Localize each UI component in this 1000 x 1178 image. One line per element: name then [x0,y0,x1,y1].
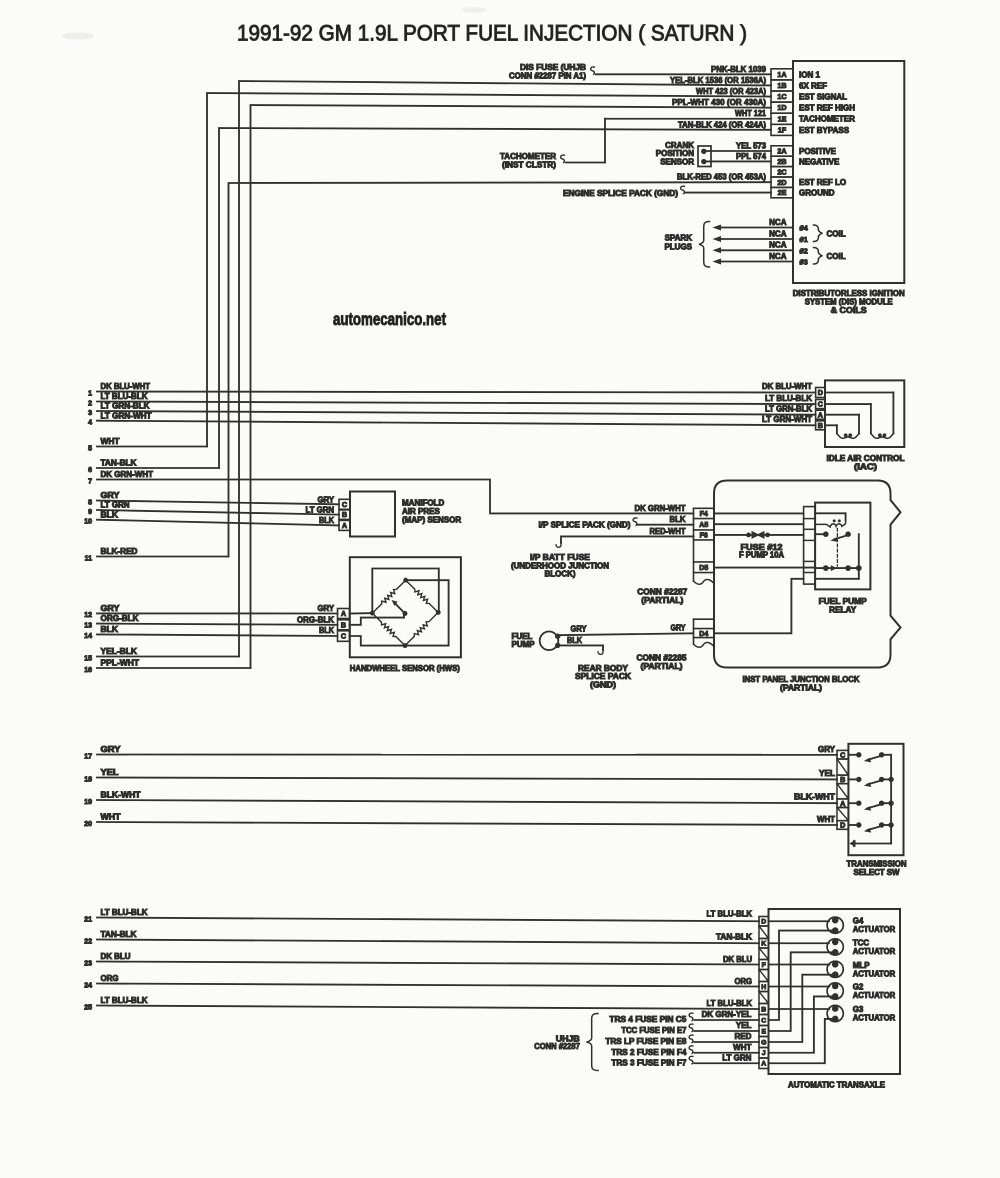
svg-text:24: 24 [84,982,92,989]
svg-text:25: 25 [84,1004,92,1011]
svg-text:YEL-BLK: YEL-BLK [101,647,138,656]
svg-text:5: 5 [88,445,92,452]
svg-text:BLK: BLK [567,636,582,645]
svg-text:B: B [818,421,823,430]
svg-text:WHT 121: WHT 121 [735,109,766,118]
svg-text:TAN-BLK 424 (OR 424A): TAN-BLK 424 (OR 424A) [678,120,766,129]
svg-text:C: C [342,500,347,509]
svg-text:BLK: BLK [319,626,334,635]
svg-text:F6: F6 [700,533,708,540]
svg-text:LT BLU-BLK: LT BLU-BLK [765,394,812,403]
svg-text:(INST CLSTR): (INST CLSTR) [502,160,556,169]
svg-text:PPL-WHT 430 (OR 430A): PPL-WHT 430 (OR 430A) [672,98,766,107]
svg-text:13: 13 [84,622,92,629]
svg-text:14: 14 [84,633,92,640]
svg-text:RELAY: RELAY [829,605,857,614]
svg-text:C: C [341,632,346,641]
svg-text:LT BLU-BLK: LT BLU-BLK [101,908,148,917]
svg-text:D: D [840,821,845,830]
svg-text:PPL-WHT: PPL-WHT [101,659,140,668]
svg-text:22: 22 [84,938,92,945]
svg-text:1: 1 [88,390,92,397]
svg-text:4: 4 [88,420,92,427]
svg-text:#4: #4 [800,224,809,233]
svg-text:GRY: GRY [571,625,588,634]
svg-text:BLOCK): BLOCK) [545,570,576,579]
svg-text:LT GRN: LT GRN [101,501,130,510]
svg-text:ORG: ORG [735,977,753,986]
svg-text:8: 8 [88,499,92,506]
svg-text:GRY: GRY [671,624,687,633]
svg-text:H: H [761,984,766,991]
svg-text:BLK: BLK [319,516,334,525]
svg-text:LT BLU-BLK: LT BLU-BLK [707,999,753,1008]
svg-text:7: 7 [88,478,92,485]
svg-text:C: C [818,400,823,409]
svg-text:GRY: GRY [101,491,121,500]
svg-text:2A: 2A [777,147,786,156]
svg-text:ACTUATOR: ACTUATOR [853,969,896,978]
svg-text:BLK: BLK [670,515,686,524]
svg-text:automecanico.net: automecanico.net [333,309,446,329]
svg-text:COIL: COIL [827,252,846,261]
svg-text:23: 23 [84,960,92,967]
svg-text:TRS 4 FUSE PIN C5: TRS 4 FUSE PIN C5 [609,1015,687,1024]
svg-text:A: A [818,410,823,419]
svg-text:F PUMP 10A: F PUMP 10A [739,550,784,559]
svg-text:NCA: NCA [769,252,787,261]
svg-text:9: 9 [88,509,92,516]
svg-text:ION 1: ION 1 [799,70,820,79]
svg-text:RED: RED [735,1032,752,1041]
svg-text:ACTUATOR: ACTUATOR [853,991,896,1000]
svg-text:COIL: COIL [827,230,846,239]
svg-text:#3: #3 [800,258,808,267]
svg-text:CONN #2287: CONN #2287 [534,1042,580,1051]
svg-text:BLK: BLK [101,510,119,519]
svg-text:1A: 1A [777,70,786,79]
svg-text:BLK-RED: BLK-RED [101,547,138,556]
svg-text:A: A [342,521,347,530]
svg-text:TRS LP FUSE PIN E8: TRS LP FUSE PIN E8 [605,1037,687,1046]
svg-text:RED-WHT: RED-WHT [650,527,686,536]
svg-text:TAN-BLK: TAN-BLK [101,459,137,468]
svg-text:(MAP) SENSOR: (MAP) SENSOR [402,515,461,524]
svg-text:1F: 1F [778,125,787,134]
svg-text:LT GRN-BLK: LT GRN-BLK [101,402,150,411]
svg-text:F4: F4 [700,511,708,518]
svg-text:LT BLU-BLK: LT BLU-BLK [707,910,753,919]
svg-text:WHT 423 (OR 423A): WHT 423 (OR 423A) [696,87,766,96]
svg-text:TAN-BLK: TAN-BLK [716,933,752,942]
svg-text:NEGATIVE: NEGATIVE [799,157,840,166]
svg-text:CONN #2287 PIN A1): CONN #2287 PIN A1) [509,71,586,80]
svg-text:DK GRN-YEL: DK GRN-YEL [702,1010,752,1019]
svg-text:#1: #1 [800,235,808,244]
svg-text:(PARTIAL): (PARTIAL) [780,684,822,693]
svg-text:12: 12 [84,612,92,619]
svg-text:16: 16 [84,667,92,674]
svg-text:POSITIVE: POSITIVE [799,147,837,156]
svg-text:E: E [761,1028,766,1035]
svg-text:LT GRN: LT GRN [722,1053,751,1062]
svg-text:BLK-WHT: BLK-WHT [101,791,141,800]
svg-text:ACTUATOR: ACTUATOR [853,1014,896,1023]
svg-text:LT GRN-WHT: LT GRN-WHT [101,411,152,420]
svg-text:LT GRN-BLK: LT GRN-BLK [765,405,812,414]
svg-text:#2: #2 [800,247,808,256]
svg-text:EST REF HIGH: EST REF HIGH [799,104,855,113]
svg-text:11: 11 [85,555,93,562]
svg-text:YEL: YEL [736,1021,752,1030]
svg-text:BLK: BLK [101,625,119,634]
svg-text:10: 10 [84,519,92,526]
svg-text:J: J [762,1050,766,1057]
svg-text:YEL: YEL [101,768,119,777]
svg-text:ACTUATOR: ACTUATOR [853,947,896,956]
svg-text:DK GRN-WHT: DK GRN-WHT [635,504,686,513]
svg-text:D4: D4 [699,631,708,638]
svg-text:WHT: WHT [733,1043,751,1052]
svg-text:BLK-WHT: BLK-WHT [794,793,835,802]
svg-text:LT BLU-BLK: LT BLU-BLK [101,996,148,1005]
svg-text:1E: 1E [778,114,787,123]
svg-text:6X REF: 6X REF [799,81,827,90]
svg-text:20: 20 [84,821,92,828]
svg-text:19: 19 [84,799,92,806]
svg-text:B: B [342,510,347,519]
svg-text:D: D [761,919,766,926]
svg-text:& COILS: & COILS [831,306,868,315]
svg-text:TACHOMETER: TACHOMETER [799,115,855,124]
svg-text:PUMP: PUMP [512,640,536,649]
svg-text:B: B [341,620,346,629]
svg-text:SPARK: SPARK [665,233,693,242]
svg-text:GRY: GRY [101,745,122,754]
svg-text:(GND): (GND) [590,680,616,689]
svg-text:TCC FUSE PIN E7: TCC FUSE PIN E7 [621,1026,687,1035]
svg-text:1D: 1D [777,103,786,112]
svg-text:LT BLU-BLK: LT BLU-BLK [101,392,148,401]
svg-text:WHT: WHT [817,815,835,824]
svg-text:D: D [818,388,823,397]
svg-text:YEL: YEL [819,769,835,778]
svg-text:G: G [761,1039,766,1046]
svg-text:LT GRN: LT GRN [306,505,335,514]
svg-text:ORG: ORG [101,974,119,983]
svg-text:ACTUATOR: ACTUATOR [853,925,896,934]
svg-text:PPL 574: PPL 574 [736,152,767,161]
svg-text:21: 21 [84,916,92,923]
svg-text:AUTOMATIC TRANSAXLE: AUTOMATIC TRANSAXLE [788,1081,886,1090]
svg-text:LT GRN-WHT: LT GRN-WHT [762,415,812,424]
svg-text:DK BLU: DK BLU [101,952,131,961]
svg-text:PNK-BLK 1039: PNK-BLK 1039 [711,65,767,74]
svg-text:ORG-BLK: ORG-BLK [297,615,334,624]
svg-text:I/P SPLICE PACK (GND): I/P SPLICE PACK (GND) [539,520,631,529]
svg-text:1C: 1C [777,92,786,101]
svg-text:GRY: GRY [318,495,335,504]
svg-text:(IAC): (IAC) [854,463,877,472]
svg-text:DK BLU-WHT: DK BLU-WHT [101,382,151,391]
svg-text:ORG-BLK: ORG-BLK [101,614,139,623]
svg-text:GRY: GRY [818,745,836,754]
svg-text:A: A [840,799,845,808]
svg-text:6: 6 [88,467,92,474]
svg-text:F: F [762,962,766,969]
svg-text:GRY: GRY [318,604,335,613]
svg-text:(PARTIAL): (PARTIAL) [641,596,683,605]
svg-text:17: 17 [84,753,92,760]
svg-text:B: B [840,775,845,784]
svg-text:A: A [341,609,346,618]
svg-text:WHT: WHT [101,437,120,446]
svg-text:GROUND: GROUND [799,189,835,198]
svg-text:1991-92 GM 1.9L PORT FUEL INJE: 1991-92 GM 1.9L PORT FUEL INJECTION ( SA… [237,21,747,46]
svg-text:DK BLU: DK BLU [723,955,752,964]
svg-text:DK BLU-WHT: DK BLU-WHT [762,382,812,391]
svg-text:C: C [840,750,845,759]
svg-text:SENSOR: SENSOR [660,158,694,167]
svg-text:2B: 2B [777,157,786,166]
svg-text:TRS 3 FUSE PIN F7: TRS 3 FUSE PIN F7 [611,1058,687,1067]
svg-text:A5: A5 [699,522,708,529]
svg-text:C: C [761,1017,766,1024]
svg-text:DK GRN-WHT: DK GRN-WHT [101,470,154,479]
svg-text:YEL 573: YEL 573 [736,141,767,150]
svg-text:3: 3 [88,410,92,417]
svg-text:2E: 2E [778,188,787,197]
svg-text:NCA: NCA [769,218,787,227]
svg-text:PLUGS: PLUGS [664,242,692,251]
svg-text:EST SIGNAL: EST SIGNAL [799,92,847,101]
svg-text:A: A [761,1061,766,1068]
svg-text:B: B [761,1006,766,1013]
svg-text:HANDWHEEL SENSOR (HWS): HANDWHEEL SENSOR (HWS) [350,664,460,673]
svg-text:18: 18 [84,776,92,783]
svg-text:YEL-BLK 1536 (OR 1536A): YEL-BLK 1536 (OR 1536A) [670,76,766,85]
svg-text:BLK-RED 453 (OR 453A): BLK-RED 453 (OR 453A) [677,173,766,182]
svg-text:TRS 2 FUSE PIN F4: TRS 2 FUSE PIN F4 [611,1048,687,1057]
svg-text:NCA: NCA [769,229,787,238]
svg-text:15: 15 [84,655,92,662]
svg-text:2C: 2C [777,167,786,176]
svg-text:D5: D5 [699,565,708,572]
svg-text:K: K [761,941,766,948]
svg-text:2: 2 [88,400,92,407]
svg-text:TAN-BLK: TAN-BLK [101,930,137,939]
svg-text:SELECT SW: SELECT SW [854,868,900,877]
svg-text:EST REF LO: EST REF LO [799,178,846,187]
svg-text:ENGINE SPLICE PACK (GND): ENGINE SPLICE PACK (GND) [563,189,678,198]
svg-text:1B: 1B [777,81,786,90]
svg-text:EST BYPASS: EST BYPASS [799,126,850,135]
svg-text:(PARTIAL): (PARTIAL) [641,662,683,671]
svg-text:NCA: NCA [769,241,787,250]
svg-text:WHT: WHT [101,813,121,822]
svg-text:2D: 2D [777,178,786,187]
svg-text:GRY: GRY [101,604,121,613]
